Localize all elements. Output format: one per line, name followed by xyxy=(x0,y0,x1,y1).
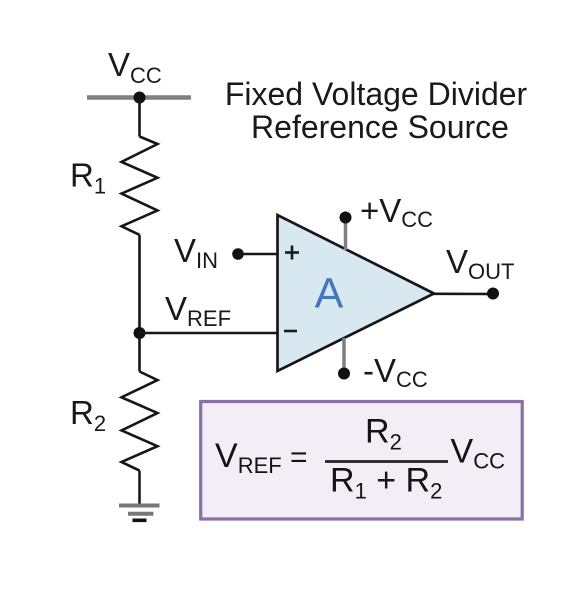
op-amp plus input marker xyxy=(285,246,299,260)
svg-text:R1 + R2: R1 + R2 xyxy=(330,462,442,504)
svg-text:Fixed Voltage Divider: Fixed Voltage Divider xyxy=(225,76,528,112)
formula Vcc factor xyxy=(451,433,506,474)
Vcc supply rail xyxy=(87,95,191,100)
label -Vcc xyxy=(363,352,428,392)
svg-text:VIN: VIN xyxy=(174,232,218,273)
wire: -Vcc supply stub xyxy=(342,338,346,373)
wire: Vcc node to R1 xyxy=(138,98,141,137)
wire: +Vcc supply stub xyxy=(344,217,348,250)
ground xyxy=(119,506,160,521)
svg-text:+VCC: +VCC xyxy=(360,192,433,232)
label R2 xyxy=(70,394,106,436)
label Vref xyxy=(165,290,231,331)
wire: Vref node to op-amp inverting input xyxy=(140,332,278,335)
resistor R2 xyxy=(122,372,158,471)
node: +Vcc terminal dot xyxy=(340,212,352,224)
svg-text:Reference Source: Reference Source xyxy=(251,109,509,145)
op-amp A body xyxy=(278,215,435,371)
formula box frame xyxy=(201,402,523,520)
node: Vout terminal dot xyxy=(487,288,499,300)
svg-text:VCC: VCC xyxy=(108,46,162,88)
label R1 xyxy=(70,157,106,199)
label Vcc xyxy=(108,46,162,88)
svg-text:R1: R1 xyxy=(70,157,106,199)
label Vin xyxy=(174,232,218,273)
formula fraction bar xyxy=(325,460,448,463)
formula: Vref = xyxy=(215,437,308,478)
node: Vref junction dot xyxy=(134,327,146,339)
svg-text:VOUT: VOUT xyxy=(446,243,514,284)
wire: R1 to Vref node xyxy=(138,235,141,333)
formula numerator R2 xyxy=(365,413,402,455)
wire: Vref node to R2 xyxy=(138,333,141,372)
svg-text:R2: R2 xyxy=(70,394,106,436)
wire: op-amp output xyxy=(434,292,493,295)
node: Vcc junction dot xyxy=(134,92,146,104)
label A (op-amp gain) xyxy=(315,270,344,318)
svg-text:VREF: VREF xyxy=(165,290,231,331)
resistor R1 xyxy=(122,137,158,235)
svg-text:-VCC: -VCC xyxy=(363,352,428,392)
op-amp minus input marker xyxy=(284,330,297,333)
svg-text:A: A xyxy=(315,270,344,318)
title: Fixed Voltage Divider Reference Source xyxy=(225,76,528,145)
formula denominator R1 + R2 xyxy=(330,462,442,504)
node: Vin terminal dot xyxy=(232,248,244,260)
node: -Vcc terminal dot xyxy=(338,368,350,380)
wire: R2 to ground xyxy=(138,471,141,504)
wire: Vin terminal to op-amp non-inverting input xyxy=(238,253,277,256)
label +Vcc xyxy=(360,192,433,232)
label Vout xyxy=(446,243,514,284)
